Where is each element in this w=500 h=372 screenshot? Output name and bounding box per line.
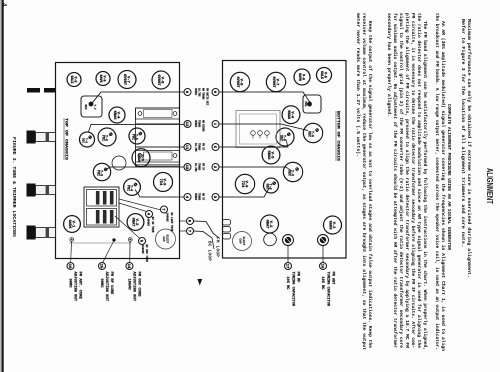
svg-text:V-1: V-1 — [331, 222, 335, 229]
svg-text:PRI: PRI — [95, 170, 99, 176]
svg-text:6V6GT: 6V6GT — [235, 76, 239, 88]
svg-text:10.7MC: 10.7MC — [198, 88, 201, 97]
svg-text:Keep the output of the signal: Keep the output of the signal generator … — [367, 21, 373, 348]
svg-text:FM RF CORE: FM RF CORE — [109, 272, 113, 296]
svg-text:6BA7: 6BA7 — [130, 218, 134, 227]
svg-text:BC LOOP TRIM: BC LOOP TRIM — [170, 213, 173, 232]
svg-text:10.7MC: 10.7MC — [194, 163, 197, 172]
svg-text:FM ANT: FM ANT — [331, 272, 335, 286]
svg-text:6V6GT: 6V6GT — [156, 74, 160, 86]
svg-text:PRI: PRI — [130, 134, 134, 140]
svg-text:Maximum performance can only b: Maximum performance can only be obtained… — [466, 19, 472, 278]
svg-text:BC RF TRIM: BC RF TRIM — [151, 217, 154, 233]
svg-text:V-9: V-9 — [244, 181, 248, 188]
svg-text:90MC: 90MC — [99, 279, 103, 289]
svg-text:ELECT: ELECT — [166, 235, 169, 244]
svg-text:V-5: V-5 — [74, 77, 78, 83]
svg-text:FM OSC CORE: FM OSC CORE — [137, 272, 141, 298]
svg-text:ELECT: ELECT — [242, 237, 245, 246]
svg-text:FM LOOP: FM LOOP — [215, 237, 220, 257]
svg-text:PRI: PRI — [304, 101, 307, 106]
svg-text:CAP: CAP — [239, 238, 242, 243]
svg-text:455KC: 455KC — [194, 120, 197, 128]
svg-text:FM RF: FM RF — [296, 272, 300, 283]
svg-text:TRANS: TRANS — [198, 193, 201, 201]
svg-text:6AV6: 6AV6 — [99, 75, 103, 83]
svg-text:V-6: V-6 — [302, 74, 306, 80]
svg-text:T-6: T-6 — [84, 138, 87, 143]
svg-text:V-9: V-9 — [162, 179, 166, 186]
svg-text:V-7: V-7 — [275, 79, 279, 86]
svg-text:10.7MC: 10.7MC — [194, 143, 197, 152]
svg-text:ADJUSTING NUT: ADJUSTING NUT — [132, 272, 136, 302]
svg-text:BC OSC TRIM: BC OSC TRIM — [145, 245, 148, 263]
svg-text:CAP: CAP — [162, 236, 165, 241]
svg-text:17: 17 — [285, 264, 289, 269]
svg-text:SEC: SEC — [306, 131, 310, 137]
svg-text:PRI: PRI — [100, 135, 104, 141]
svg-text:SEC: SEC — [286, 170, 290, 176]
svg-text:BC LOOP: BC LOOP — [207, 241, 212, 261]
svg-text:V-3: V-3 — [270, 152, 274, 159]
svg-text:455KC: 455KC — [194, 88, 197, 96]
svg-text:6AU6: 6AU6 — [327, 221, 331, 230]
svg-text:13: 13 — [184, 165, 188, 170]
svg-text:ADJUSTING NUT: ADJUSTING NUT — [73, 272, 77, 302]
svg-text:AM DIODE: AM DIODE — [202, 120, 205, 132]
svg-text:6BA6: 6BA6 — [136, 153, 140, 162]
svg-text:AM IF: AM IF — [202, 193, 205, 201]
svg-text:ADJUSTING NUT: ADJUSTING NUT — [104, 272, 108, 302]
svg-text:6BA6: 6BA6 — [112, 111, 116, 120]
svg-text:15: 15 — [99, 264, 103, 269]
svg-text:PRI: PRI — [125, 185, 129, 191]
svg-text:7Z4: 7Z4 — [240, 181, 244, 188]
svg-text:TRANS: TRANS — [198, 163, 201, 171]
svg-text:V-2: V-2 — [134, 219, 138, 226]
svg-text:TUNING CAPACITOR: TUNING CAPACITOR — [290, 272, 294, 307]
svg-text:V-6: V-6 — [103, 76, 107, 82]
svg-text:14: 14 — [126, 264, 130, 269]
svg-text:11: 11 — [184, 145, 188, 150]
svg-text:105MC: 105MC — [126, 279, 130, 291]
svg-text:TRANS: TRANS — [198, 143, 201, 151]
svg-text:6AL5: 6AL5 — [320, 71, 324, 79]
svg-text:AM TRANS: AM TRANS — [202, 88, 205, 100]
svg-text:90MC: 90MC — [67, 279, 71, 289]
svg-text:FM IF: FM IF — [202, 163, 205, 171]
svg-text:6AV6: 6AV6 — [298, 73, 302, 81]
svg-text:1400KC: 1400KC — [147, 217, 150, 227]
svg-text:7Z4: 7Z4 — [158, 179, 162, 186]
svg-text:FIGURE 3. TUBE & TRIMMER LOCA: FIGURE 3. TUBE & TRIMMER LOCATIONS — [11, 137, 17, 237]
svg-text:6AL5: 6AL5 — [70, 76, 74, 84]
svg-text:SEC: SEC — [264, 183, 268, 189]
svg-text:6BA6: 6BA6 — [266, 151, 270, 160]
svg-text:V-1: V-1 — [71, 221, 75, 228]
svg-text:V-5: V-5 — [324, 72, 328, 78]
svg-text:SEC: SEC — [81, 138, 84, 143]
svg-text:10: 10 — [67, 264, 71, 269]
svg-text:TUNING CAPACITOR: TUNING CAPACITOR — [325, 272, 329, 307]
svg-text:V-8: V-8 — [160, 77, 164, 84]
svg-text:V-2: V-2 — [268, 221, 272, 228]
svg-text:12: 12 — [184, 122, 188, 127]
svg-text:V-7: V-7 — [126, 76, 130, 83]
svg-text:T-7: T-7 — [93, 104, 96, 109]
svg-text:1400KC: 1400KC — [141, 245, 144, 255]
svg-text:6BA6: 6BA6 — [286, 110, 290, 119]
svg-text:V-4: V-4 — [290, 111, 294, 118]
svg-text:COMPLETE ALIGNMENT PROCEDURE U: COMPLETE ALIGNMENT PROCEDURE USING AN AM… — [446, 104, 452, 250]
svg-text:FM RATIO DET.: FM RATIO DET. — [206, 88, 209, 107]
svg-text:FM ANT. CORE: FM ANT. CORE — [78, 272, 82, 300]
svg-text:V-3: V-3 — [140, 154, 144, 161]
svg-text:6V6GT: 6V6GT — [271, 76, 275, 88]
svg-text:1400KC: 1400KC — [166, 213, 169, 223]
svg-text:ALIGNMENT: ALIGNMENT — [485, 168, 495, 205]
svg-text:The FM band alignment can be s: The FM band alignment can be satisfactor… — [422, 21, 428, 350]
svg-text:16: 16 — [320, 264, 324, 269]
svg-text:6V6GT: 6V6GT — [122, 74, 126, 86]
svg-text:105 MC: 105 MC — [285, 277, 289, 291]
svg-text:SEC: SEC — [84, 104, 87, 109]
svg-text:V-4: V-4 — [116, 112, 120, 119]
svg-text:105 MC: 105 MC — [320, 277, 324, 291]
svg-text:6AU6: 6AU6 — [67, 220, 71, 229]
svg-text:TRANS: TRANS — [198, 120, 201, 128]
svg-text:V-8: V-8 — [239, 79, 243, 86]
svg-text:6BA7: 6BA7 — [264, 220, 268, 229]
svg-text:FM IF: FM IF — [202, 143, 205, 151]
svg-text:455KC: 455KC — [194, 193, 197, 201]
